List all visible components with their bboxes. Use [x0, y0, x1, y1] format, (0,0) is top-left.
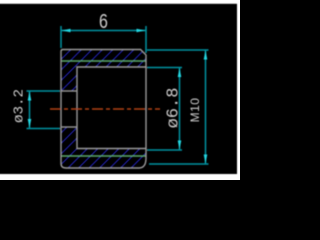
svg-text:M10: M10 — [188, 98, 202, 123]
svg-text:ø6.8: ø6.8 — [165, 88, 184, 129]
svg-text:6: 6 — [99, 9, 108, 32]
svg-text:ø3.2: ø3.2 — [12, 89, 28, 123]
